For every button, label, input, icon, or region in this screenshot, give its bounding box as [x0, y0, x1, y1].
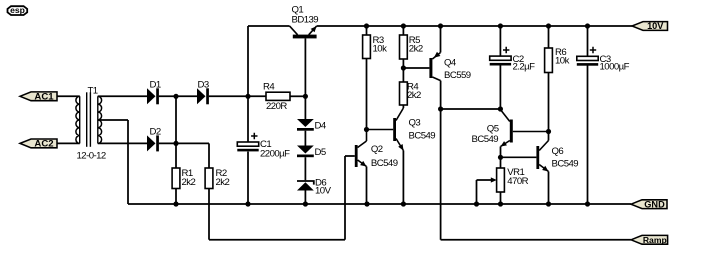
- wire T1 secondary top to D1: [98, 95, 147, 97]
- svg-text:2k2: 2k2: [216, 177, 230, 188]
- resistor R4 220R: [266, 92, 290, 100]
- capacitor C2 2.2uF: [499, 26, 501, 56]
- wire Ramp output: [441, 239, 631, 241]
- junction R4/Q1 base/D4: [303, 94, 308, 99]
- wire Q4 collector down to Ramp: [440, 81, 442, 240]
- svg-text:BC559: BC559: [444, 70, 471, 81]
- junction Q4 collector / link: [438, 106, 443, 111]
- wire T1 centre tap: [98, 119, 128, 121]
- wire to D4: [304, 96, 306, 119]
- svg-text:10V: 10V: [647, 21, 664, 31]
- svg-text:2200µF: 2200µF: [260, 148, 290, 159]
- svg-text:Q4: Q4: [444, 58, 457, 69]
- junction GND/C1: [245, 201, 250, 206]
- svg-text:Q2: Q2: [371, 144, 383, 155]
- zener diode D6 10V: [297, 182, 314, 190]
- wire Q5 emitter down: [500, 147, 502, 158]
- capacitor C1 2200uF: [247, 96, 249, 142]
- junction GND/D6: [303, 201, 308, 206]
- wire Q3 emitter to GND: [402, 151, 404, 205]
- wire D4 to D5: [304, 131, 306, 146]
- wire T1 secondary bottom to D2: [98, 142, 147, 144]
- transistor Q5 BC549: [500, 110, 548, 147]
- svg-text:Q3: Q3: [409, 117, 421, 128]
- node GND (output tag): [631, 200, 667, 209]
- transistor Q3 BC549: [367, 108, 404, 151]
- resistor R2 2k2: [208, 143, 210, 168]
- junction GND/VR1 bottom: [498, 201, 503, 206]
- junction GND/Q3 emitter: [401, 201, 406, 206]
- svg-text:2.2µF: 2.2µF: [513, 62, 536, 73]
- svg-text:T1: T1: [88, 86, 98, 97]
- wire Q6 emitter to GND: [548, 172, 550, 205]
- wire GND rail: [128, 203, 631, 205]
- resistor R4 2k2: [400, 82, 408, 105]
- wire to Q4 base: [403, 67, 429, 69]
- junction D1/D3/vertical: [173, 94, 178, 99]
- wire Q2 emitter to GND: [366, 167, 368, 205]
- svg-text:D2: D2: [150, 127, 161, 138]
- transistor Q6 BC549: [501, 141, 549, 172]
- junction R3/Q3 base/Q2 collector: [364, 127, 369, 132]
- wire centre tap down to GND rail: [127, 120, 129, 204]
- wire D5 to D6: [304, 157, 306, 180]
- wire D6 to GND rail: [304, 191, 306, 205]
- svg-text:D4: D4: [315, 120, 327, 131]
- svg-text:R4: R4: [263, 82, 275, 93]
- svg-text:D5: D5: [315, 147, 326, 158]
- diode D4: [297, 119, 314, 127]
- diode D5: [297, 146, 314, 154]
- svg-text:10k: 10k: [555, 55, 570, 66]
- diode D1: [147, 88, 156, 104]
- resistor R6 10k: [548, 26, 550, 48]
- svg-text:D1: D1: [150, 79, 161, 90]
- node AC1 (input tag): [20, 92, 57, 101]
- junction GND/VR1 wiper: [474, 201, 479, 206]
- svg-text:10V: 10V: [315, 185, 332, 196]
- svg-text:GND: GND: [644, 199, 665, 209]
- svg-text:BD139: BD139: [292, 15, 319, 26]
- resistor R5 2k2: [402, 26, 404, 35]
- svg-text:1000µF: 1000µF: [600, 62, 630, 73]
- svg-text:Q5: Q5: [487, 123, 499, 134]
- wire D3 cathode to R4: [209, 95, 266, 97]
- svg-text:BC549: BC549: [552, 158, 579, 169]
- junction R5/R4/Q4 base: [401, 65, 406, 70]
- wire D1 junction down to D2 row: [175, 96, 177, 143]
- wire AC1 to T1 primary top: [57, 95, 80, 97]
- transistor Q4 BC559: [429, 52, 440, 81]
- node AC2 (input tag): [20, 139, 57, 148]
- transistor Q1 BD139: [290, 26, 317, 38]
- svg-text:AC1: AC1: [34, 92, 54, 103]
- svg-text:2k2: 2k2: [409, 43, 423, 54]
- diode D3: [197, 88, 206, 104]
- wire R2 bottom feedback loop to Q2 base: [209, 239, 345, 241]
- wire Q1 base down: [304, 38, 306, 96]
- svg-text:10k: 10k: [373, 43, 388, 54]
- svg-text:Ramp: Ramp: [643, 235, 667, 245]
- svg-text:BC549: BC549: [409, 131, 436, 142]
- wire top rail Q1 emitter to 10V tag: [317, 25, 632, 27]
- diode D2: [147, 135, 156, 151]
- resistor R1 2k2: [175, 143, 177, 168]
- junction C2 bottom / Q5 collector: [498, 106, 503, 111]
- svg-text:BC549: BC549: [371, 158, 398, 169]
- transformer T1: [76, 92, 102, 147]
- svg-text:BC549: BC549: [472, 134, 499, 145]
- node 10V (output tag): [632, 22, 668, 31]
- resistor R3 10k: [366, 26, 368, 35]
- svg-text:Q6: Q6: [552, 146, 564, 157]
- junction Q5 emitter/Q6 base/VR1: [498, 155, 503, 160]
- ESP logo: [8, 5, 28, 15]
- wire AC2 to T1 primary bottom: [57, 142, 80, 144]
- svg-text:esp: esp: [10, 5, 25, 15]
- capacitor C3 1000uF: [587, 26, 589, 56]
- junction GND/Q6 emitter: [546, 201, 551, 206]
- junction GND/C3: [585, 201, 590, 206]
- wire D2 cathode to R1/R2 row: [159, 142, 209, 144]
- junction GND/Q2 emitter: [364, 201, 369, 206]
- wiper arm of VR1: [476, 180, 478, 204]
- svg-text:12-0-12: 12-0-12: [77, 151, 106, 162]
- trimpot VR1 470R: [500, 157, 502, 168]
- wire +rail corner above C1: [247, 26, 249, 96]
- svg-text:2k2: 2k2: [182, 177, 196, 188]
- svg-text:2k2: 2k2: [407, 90, 421, 101]
- svg-text:D3: D3: [198, 79, 209, 90]
- wire link Q4 collector to C2/Q5: [441, 108, 501, 110]
- junction D2/R1 (4-way): [173, 141, 178, 146]
- wire top rail to Q1 collector: [248, 25, 290, 27]
- wire D1 cathode to D3 anode: [159, 95, 197, 97]
- junction R6/Q5 base/Q6 collector: [546, 129, 551, 134]
- svg-text:220R: 220R: [266, 101, 287, 112]
- node Ramp (output tag): [631, 235, 668, 244]
- transistor Q2 BC549: [355, 130, 367, 168]
- svg-text:470R: 470R: [507, 176, 528, 187]
- wire Q4 emitter to rail: [440, 26, 442, 53]
- svg-text:AC2: AC2: [34, 139, 53, 150]
- junction GND/R1: [173, 201, 178, 206]
- junction C1 top / rail corner: [245, 94, 250, 99]
